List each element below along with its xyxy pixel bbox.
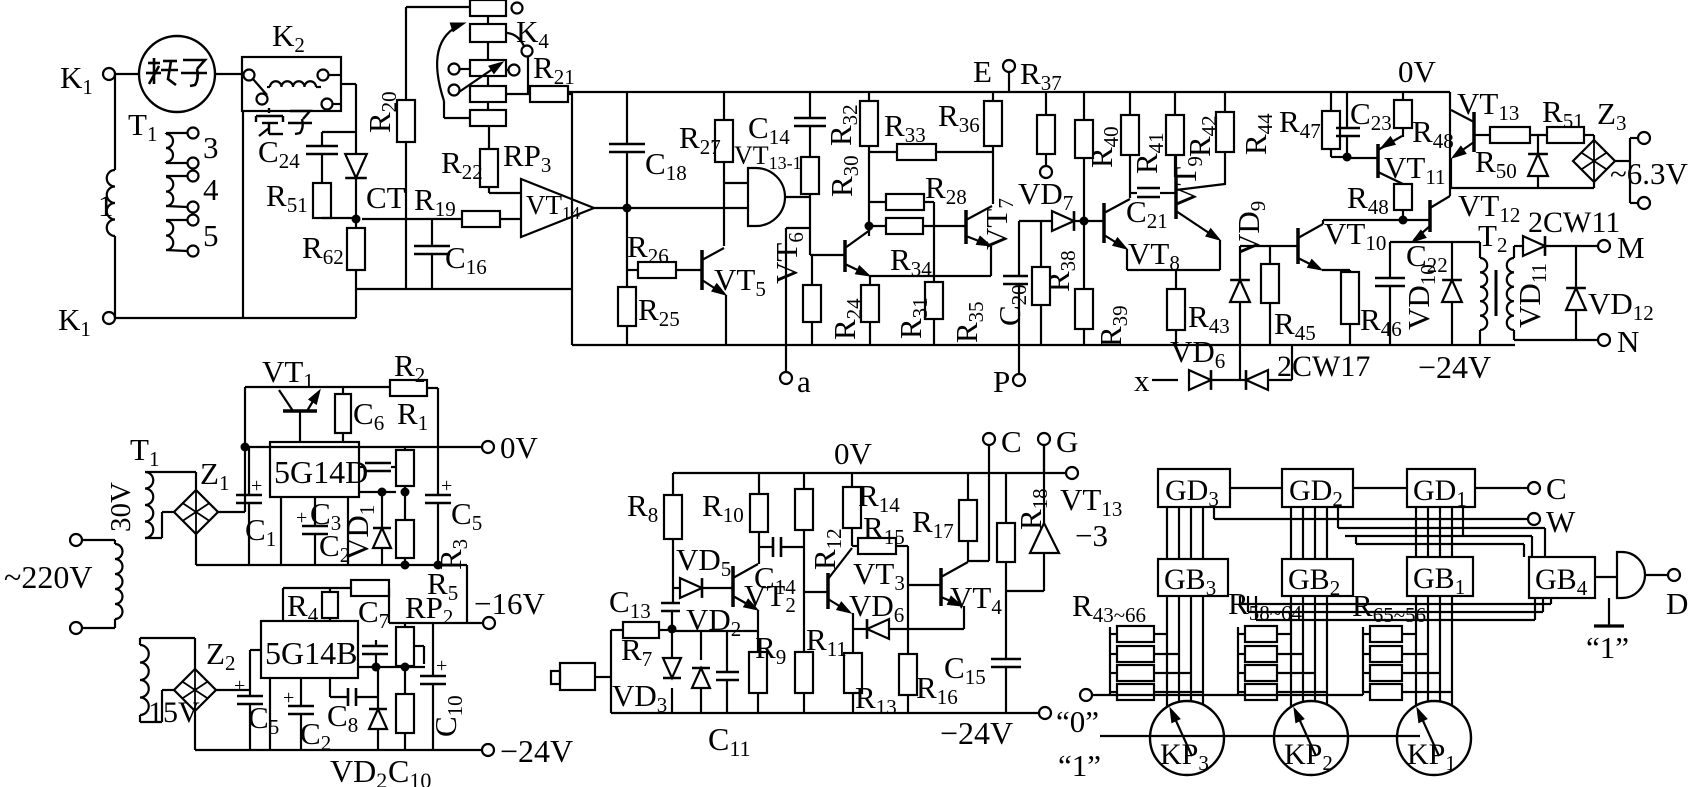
bus GB1 down [1416, 596, 1452, 706]
resistor R20 [362, 7, 415, 289]
resistor R30 [801, 155, 863, 255]
terminal W [1528, 504, 1576, 539]
capacitor C21 [1126, 188, 1176, 233]
transistor VT9 [1176, 155, 1225, 270]
wire rotor to K2 [215, 73, 244, 75]
svg-text:G: G [1056, 424, 1078, 459]
gate input wire [724, 182, 748, 184]
label 15V [148, 696, 200, 729]
potentiometer RP2 [396, 590, 453, 666]
terminal rail right [1066, 467, 1078, 479]
resistor R25 [618, 208, 680, 345]
resistor R50 [1474, 127, 1530, 183]
wire IC pin2 [347, 497, 349, 565]
junction [865, 222, 874, 231]
resistor R14 [843, 473, 900, 546]
svg-text:−24V: −24V [1418, 349, 1491, 385]
wire bottom [115, 317, 356, 318]
label VT8 [1128, 236, 1180, 275]
label CT [366, 180, 406, 215]
transistor VT13 [1451, 110, 1474, 188]
resistor R7 [611, 622, 672, 671]
resistor R32 [823, 92, 878, 236]
label K4 [516, 14, 549, 53]
resistor R40 [1084, 92, 1139, 198]
wire gate out [1645, 574, 1668, 576]
svg-text:5G14D: 5G14D [274, 454, 368, 490]
label VT10 [1324, 216, 1386, 255]
wire node bus [672, 630, 758, 632]
resistor R13 [844, 629, 897, 719]
resistor R51 right [1530, 94, 1594, 143]
terminal K1 top [60, 60, 115, 99]
svg-text:5G14B: 5G14B [265, 635, 357, 671]
label 1 quote [1058, 748, 1101, 783]
resistor R41 [1129, 92, 1184, 177]
junction [1343, 153, 1352, 162]
resistor R33 [869, 108, 993, 160]
svg-text:“1”: “1” [1586, 630, 1629, 665]
junction [401, 663, 410, 672]
transistor VT1 [262, 354, 320, 442]
transformer T1 secondary winding 5 [166, 215, 199, 257]
terminal 220V bottom [70, 622, 115, 634]
junction [668, 625, 677, 634]
switch KP3 [1150, 701, 1224, 775]
capacitor beside IC [359, 463, 396, 471]
resistor R8 [627, 473, 682, 603]
transistor VT2 [733, 564, 758, 610]
svg-text:C: C [1546, 471, 1567, 506]
svg-text:1: 1 [98, 188, 114, 223]
resistor R43 [1167, 270, 1230, 345]
resistor R21 [506, 50, 575, 102]
diode VD2 [330, 667, 387, 787]
capacitor C22 [1375, 238, 1448, 345]
wire K2 to CT branch [341, 84, 356, 148]
resistor R34 [869, 218, 966, 281]
transformer 15V secondary [140, 638, 195, 722]
resistor R38b chain on rail [1075, 92, 1093, 221]
svg-text:W: W [1546, 504, 1576, 539]
terminal -24V [482, 733, 573, 769]
resistor R10 [702, 473, 768, 564]
transformer T1 primary winding [107, 170, 115, 236]
svg-text:~6.3V: ~6.3V [1610, 156, 1689, 191]
capacitor C5 [425, 447, 482, 565]
svg-text:CT: CT [366, 180, 406, 215]
transformer T1 secondary winding 3 [166, 128, 199, 169]
terminal ladder common [1080, 689, 1363, 701]
junction [352, 215, 361, 224]
resistor ladder group 3 [1363, 626, 1452, 700]
wire GD links [1230, 487, 1528, 489]
label VT2 [744, 578, 796, 617]
resistor R46 [1341, 272, 1402, 345]
resistor below RP2 [396, 667, 414, 750]
junction [372, 663, 381, 672]
wire VT10 base [1240, 245, 1298, 247]
transistor VT7 [966, 206, 992, 276]
wire main top rail 0V [567, 91, 1450, 93]
bus GD3-GB3-KP3 [1167, 507, 1203, 559]
capacitor C10 [420, 623, 467, 750]
wire block bottom [356, 288, 572, 290]
svg-text:−16V: −16V [474, 586, 545, 621]
wire VT12 emitter bus [1390, 241, 1480, 243]
svg-text:P: P [993, 364, 1010, 399]
bridge rectifier Z3 [1573, 96, 1626, 188]
wire C tap [968, 473, 989, 561]
junction [401, 561, 410, 570]
svg-text:a: a [797, 364, 811, 399]
resistor R27 [679, 92, 733, 246]
terminal D [1666, 569, 1688, 621]
resistor R18 [997, 473, 1052, 659]
wire 0 line [1056, 704, 1420, 739]
junction [241, 443, 250, 452]
label R44 [1238, 113, 1277, 155]
resistor R24 [803, 255, 866, 345]
transformer T2 secondary [1507, 246, 1523, 340]
label VD2 mid [686, 602, 741, 641]
bus loop lower [1240, 596, 1551, 620]
transformer T1b label [130, 432, 159, 471]
resistor R39 [1075, 221, 1132, 347]
wire -16V rail [389, 622, 483, 624]
resistor R31 [861, 276, 932, 345]
resistor R15 [852, 510, 908, 654]
transistor VT11 [1347, 136, 1403, 184]
resistor R4 [283, 588, 351, 627]
svg-text:3: 3 [203, 130, 219, 165]
resistor R26 [627, 229, 702, 278]
svg-text:C: C [1001, 424, 1022, 459]
label VT4 [950, 580, 1002, 619]
junction node [623, 204, 632, 213]
capacitor C14 [748, 92, 826, 157]
capacitor C6 [335, 387, 384, 442]
svg-text:“1”: “1” [1058, 748, 1101, 783]
label 0V top right [1398, 54, 1437, 89]
gate GB output [1595, 576, 1617, 578]
diode VD1 [340, 492, 391, 565]
resistor R42 [1182, 92, 1234, 185]
resistor R37 [1037, 92, 1055, 178]
resistor R12 [795, 473, 846, 592]
switch K4 arc right [507, 33, 533, 57]
diode VD3b [692, 631, 710, 713]
capacitor beside IC lower [362, 640, 388, 667]
label ~220V [4, 559, 92, 595]
switch K4 resistor 3 [449, 42, 520, 76]
transistor VT8 [1104, 199, 1130, 270]
terminal -16V [474, 586, 545, 629]
diode VD7 [1018, 176, 1104, 231]
microphone transducer [551, 630, 611, 713]
svg-text:0V: 0V [834, 436, 873, 471]
wire Z2 out [216, 650, 261, 690]
box GB4 [1529, 557, 1595, 600]
switch K4 resistor 4 [449, 76, 507, 102]
svg-text:x: x [1134, 363, 1150, 398]
resistor R1 vertical [396, 447, 414, 520]
wire 0V rail [245, 446, 482, 448]
box GD3 [1158, 469, 1230, 511]
label 30V [105, 482, 137, 532]
box GD1 [1407, 469, 1475, 511]
capacitor C24 [258, 132, 356, 183]
switch K4 resistor 5 [444, 101, 506, 126]
terminal 0V [482, 430, 539, 465]
label R37 [1020, 56, 1062, 95]
resistor ladder group 1 [1110, 626, 1203, 700]
svg-text:M: M [1617, 230, 1645, 265]
wire VT12 collector [1449, 92, 1451, 196]
terminal P [993, 345, 1025, 399]
label VD6 [1170, 334, 1225, 373]
terminal M [1598, 230, 1645, 265]
svg-text:0V: 0V [1398, 54, 1437, 89]
capacitor C3 C2 [296, 496, 350, 567]
label VT7 [979, 198, 1018, 250]
relay K2 box with contacts and coil [242, 57, 341, 111]
transistor VT10 [1298, 220, 1350, 272]
resistor R5 vertical [396, 520, 414, 565]
wire main left edge [571, 92, 573, 345]
transformer mains primary [115, 540, 123, 628]
resistor R9 [749, 610, 786, 713]
junction [1080, 217, 1089, 226]
wire Z2 bottom [194, 711, 196, 750]
label 1 [98, 188, 114, 223]
wire IC pin [280, 497, 282, 565]
capacitor C15 [944, 650, 1021, 713]
svg-text:“0”: “0” [1056, 704, 1099, 739]
svg-text:N: N [1617, 324, 1639, 359]
svg-text:2CW11: 2CW11 [1528, 206, 1620, 239]
label R58-64 [1228, 586, 1303, 625]
switch K4 resistor 1 [470, 0, 523, 16]
terminal 6.3V [1610, 132, 1689, 209]
label VT13 [1457, 86, 1519, 125]
transistor VT3 [804, 548, 853, 629]
resistor R35 [925, 202, 988, 345]
capacitor C16 [414, 219, 487, 289]
AND gate D [1617, 552, 1645, 598]
op-amp VT14 [521, 179, 594, 237]
svg-text:15V: 15V [148, 696, 200, 729]
svg-text:−24V: −24V [940, 715, 1013, 751]
capacitor C7 [351, 580, 389, 633]
label VT3 [853, 556, 905, 595]
IC 5G14D [270, 442, 368, 497]
svg-text:5: 5 [203, 218, 219, 253]
wire main bottom rail [572, 344, 1515, 346]
capacitor C23 [1336, 92, 1392, 157]
capacitor C1 [236, 447, 276, 565]
label C10 bottom [388, 753, 431, 787]
bridge rectifier Z1 [174, 456, 229, 534]
label 2CW11 [1528, 206, 1620, 239]
wire right edge [466, 565, 468, 623]
ground 1 input [1586, 598, 1629, 665]
bus GB2 down [1291, 596, 1327, 706]
gate VT13-1 [734, 141, 802, 226]
transformer 30V secondary [145, 472, 196, 538]
svg-text:+: + [234, 675, 245, 697]
capacitor C8 [327, 678, 378, 737]
relay K2 label [272, 18, 305, 57]
terminal K1 bottom [58, 302, 115, 341]
switch K4 wiper arc [437, 23, 465, 101]
switch KP1 [1397, 701, 1471, 775]
capacitor C14 mid [754, 537, 804, 599]
resistor R47 [1279, 92, 1347, 157]
switch K4 resistor 2 [470, 16, 506, 42]
diode VD3 [612, 629, 681, 717]
bus GD2-GB2-KP2 [1291, 507, 1327, 559]
svg-text:30V: 30V [105, 482, 137, 532]
resistor R16 [899, 654, 958, 713]
wire [115, 73, 139, 75]
resistor R48 upper [1394, 92, 1454, 153]
box GB3 [1158, 559, 1228, 600]
wire mid top rail [673, 472, 1066, 474]
resistor R48 lower [1347, 180, 1412, 220]
label VT13-3 [1060, 482, 1122, 553]
svg-text:+: + [436, 655, 447, 677]
transformer T2 primary [1480, 242, 1487, 345]
diode VD12 [1566, 246, 1654, 340]
svg-text:0V: 0V [500, 430, 539, 465]
wire gate output [785, 196, 810, 198]
resistor R62 [302, 219, 365, 318]
bus loop wires [1338, 507, 1545, 557]
wire IC pin3 [269, 678, 271, 750]
terminal a [780, 364, 811, 399]
capacitor C13 [609, 584, 680, 629]
resistor R51 (left) [266, 178, 356, 218]
terminal G [1038, 424, 1078, 473]
svg-text:D: D [1666, 586, 1688, 621]
transformer T2 label [1478, 218, 1507, 257]
wire top to K4 [406, 6, 470, 8]
diode CT [345, 148, 367, 218]
switch K4 wiper diagonal [459, 62, 503, 92]
label C11 [708, 721, 751, 761]
transistor VT12 [1412, 196, 1450, 242]
wire K1 top down to transformer [114, 74, 116, 318]
IC 5G14B [261, 621, 358, 678]
junction [434, 561, 443, 570]
wire mid bottom rail [611, 712, 1039, 714]
resistor R36 [938, 92, 1002, 204]
diode VD5 [673, 542, 733, 598]
capacitor beside VD3 [716, 631, 739, 713]
label -24V [1418, 349, 1491, 385]
resistor R45 [1261, 246, 1316, 345]
rotor (Zhuan Zi) circle [139, 36, 215, 112]
svg-text:~220V: ~220V [4, 559, 92, 595]
box GD2 [1282, 469, 1353, 511]
resistor R2 [390, 348, 438, 447]
rotor hanzi Zhuan [146, 58, 178, 85]
switch KP2 [1274, 701, 1348, 775]
svg-text:E: E [973, 54, 992, 89]
wire node row lower [358, 666, 425, 668]
label 3 [203, 130, 219, 165]
wire node row [359, 491, 396, 493]
label 0V mid [834, 436, 873, 471]
svg-text:4: 4 [203, 172, 219, 207]
capacitor C2 lower [283, 678, 331, 755]
bridge rectifier Z2 [174, 636, 235, 711]
x wire with VD6 diodes [1134, 345, 1292, 398]
wire Z1 to 0V [218, 447, 245, 512]
wire collector bus to VT12 [1323, 219, 1430, 221]
wire W line [1214, 507, 1528, 519]
wire stator vertical [242, 111, 244, 318]
junction [401, 488, 410, 497]
terminal 220V top [70, 534, 115, 546]
resistor R19 [362, 182, 521, 227]
terminal C mid [983, 424, 1022, 473]
label VT11 [1384, 150, 1446, 189]
transformer T2 core [1495, 270, 1498, 316]
resistor R28 [869, 170, 967, 210]
rotor hanzi Zi [181, 60, 207, 86]
junction [1399, 216, 1408, 225]
label 5 [203, 218, 219, 253]
label 4 [203, 172, 219, 207]
diode VD9 [1230, 201, 1270, 380]
terminal E [973, 54, 1015, 92]
resistor ladder group 2 [1238, 626, 1327, 700]
label VT9 [1168, 156, 1207, 208]
capacitor C18 [609, 92, 687, 208]
junction [378, 488, 387, 497]
box GB1 [1407, 557, 1473, 599]
label R5 [427, 566, 458, 605]
resistor R38 [1032, 221, 1080, 345]
wire mid rail [196, 564, 467, 566]
wire emitter rail 6V [1451, 187, 1594, 189]
label VT12 [1458, 188, 1520, 227]
wire -24V rail [195, 749, 482, 751]
transformer T1 label [128, 107, 157, 146]
label R3 [433, 539, 472, 570]
capacitor C20 [992, 221, 1031, 345]
bus GD1-GB1-KP1 [1416, 507, 1452, 557]
terminal -24V mid [940, 707, 1051, 751]
diode VD10 [1401, 242, 1462, 345]
wire a-stem [786, 228, 810, 372]
bus GB3 down [1167, 596, 1203, 706]
wire VT8 VT9 emitter bus [1127, 269, 1220, 271]
wire Z1 bottom [195, 534, 197, 565]
transistor VT5 [702, 248, 726, 345]
capacitor C5 lower [234, 675, 279, 750]
wire emitter bus [870, 275, 991, 277]
label R65-56 [1352, 588, 1426, 627]
box GB2 [1282, 559, 1353, 600]
label VT6 [769, 232, 808, 284]
wire VT1 collector [245, 387, 390, 447]
label 2CW17 [1277, 350, 1370, 383]
transformer T1 secondary winding 4 [166, 171, 199, 213]
buffer VT13-3 [1006, 445, 1059, 591]
